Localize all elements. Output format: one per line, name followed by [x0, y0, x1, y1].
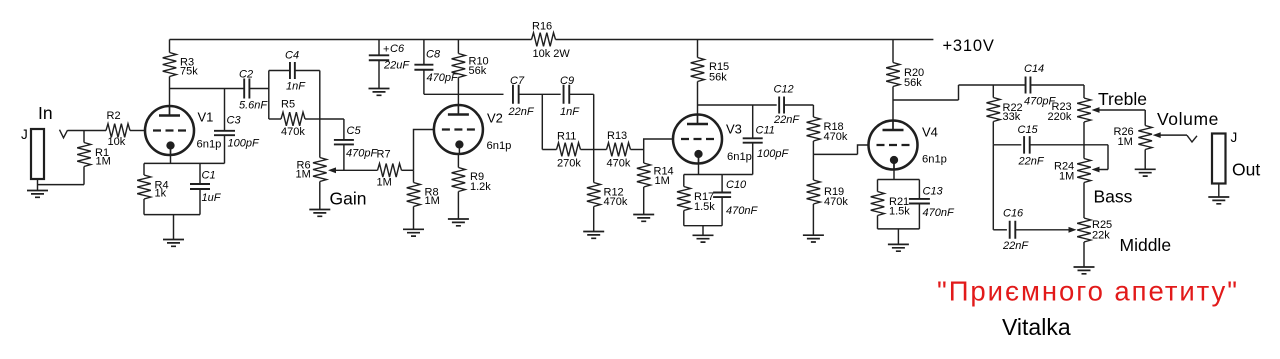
ground V1 cathode network: [163, 240, 184, 247]
wire C1 leads: [199, 163, 201, 214]
svg-text:1nF: 1nF: [560, 106, 580, 118]
wire V1 cathode box to ground: [173, 215, 175, 240]
middle pot wiper arrow: [1015, 227, 1076, 233]
svg-text:R16: R16: [532, 21, 552, 33]
svg-text:+310V: +310V: [943, 37, 995, 55]
wire V4 cathode box to ground: [897, 229, 899, 245]
wire V4 cathode box bottom: [878, 228, 920, 230]
svg-text:C3: C3: [227, 115, 242, 127]
wire C13 leads: [918, 180, 920, 229]
svg-text:22uF: 22uF: [383, 60, 410, 72]
svg-text:Bass: Bass: [1094, 187, 1133, 207]
wire network output down to gain pot: [319, 119, 321, 158]
capacitor C15 22nF (bass cap): [1018, 124, 1045, 168]
svg-text:C12: C12: [774, 84, 794, 96]
ground R9: [448, 219, 469, 226]
wire C15 to bass pot top and wiper jog: [1030, 145, 1108, 170]
svg-text:22nF: 22nF: [1018, 156, 1045, 168]
svg-text:33k: 33k: [1003, 111, 1021, 123]
resistor R5 470k (series): [269, 99, 320, 139]
ground input jack: [27, 191, 48, 198]
svg-text:22nF: 22nF: [1002, 240, 1029, 252]
wire C6 leads: [378, 40, 380, 89]
wire V4 cathode to box: [893, 158, 895, 180]
svg-text:R11: R11: [557, 131, 576, 143]
svg-text:470nF: 470nF: [923, 207, 955, 219]
svg-text:R7: R7: [377, 149, 391, 161]
svg-text:1M: 1M: [296, 169, 311, 181]
svg-text:56k: 56k: [469, 65, 487, 77]
svg-text:C7: C7: [510, 75, 525, 87]
svg-text:C6: C6: [390, 43, 405, 55]
wire V1 plate lead: [169, 89, 171, 116]
resistor R17 1.5k (V3 cathode): [677, 175, 715, 226]
wire V3 cathode box to ground: [702, 226, 704, 236]
wire C12 to R18 drop: [784, 105, 813, 117]
wire V4 plate lead: [892, 100, 894, 130]
capacitor C4 1nF (bypass over R5): [285, 50, 306, 93]
wire V1 cathode to RC network: [170, 146, 172, 164]
resistor R22 33k (slope): [987, 85, 1023, 145]
svg-text:C15: C15: [1018, 124, 1039, 136]
resistor R1 1M (input grid leak): [77, 131, 111, 168]
ground V4 cathode network: [888, 244, 909, 251]
resistor R7 1M (to V2 grid): [377, 149, 414, 189]
wire network right edge: [319, 71, 321, 120]
capacitor C12 22nF (coupling): [773, 84, 800, 127]
potentiometer R24 1M (Bass): [1054, 159, 1091, 219]
svg-text:56k: 56k: [709, 72, 727, 84]
resistor R9 1.2k (V2 cathode): [452, 154, 492, 219]
capacitor C10 470nF (V3 cathode bypass): [713, 179, 758, 217]
svg-text:22nF: 22nF: [508, 106, 535, 118]
capacitor C1 1uF (V1 cathode bypass): [190, 170, 222, 205]
svg-text:22nF: 22nF: [773, 114, 800, 126]
svg-text:In: In: [38, 103, 53, 123]
potentiometer R23 220k (Treble): [1048, 98, 1091, 159]
triode V4 6n1p: [869, 121, 947, 170]
wire C8 leads: [423, 40, 425, 95]
svg-text:1.2k: 1.2k: [470, 181, 491, 193]
ground middle pot: [1074, 267, 1095, 274]
resistor R3 75k (V1 plate load): [163, 40, 199, 89]
svg-text:1nF: 1nF: [286, 81, 306, 93]
wire +310V supply rail (right section): [556, 39, 934, 41]
potentiometer R25 22k (Middle): [1077, 218, 1112, 267]
ground R8: [403, 229, 424, 236]
svg-text:C4: C4: [285, 50, 299, 62]
input jack J (In): [21, 103, 53, 179]
svg-text:C9: C9: [560, 75, 574, 87]
wire network left edge: [268, 71, 270, 120]
wire V3 cathode box bottom: [684, 225, 722, 227]
svg-text:1M: 1M: [96, 156, 111, 168]
wire V2 plate lead: [457, 94, 459, 114]
svg-text:1.5k: 1.5k: [694, 201, 715, 213]
capacitor C13 470nF (V4 cathode bypass): [909, 186, 955, 220]
triode V3 6n1p: [673, 115, 752, 164]
svg-text:Middle: Middle: [1120, 235, 1172, 255]
svg-text:J: J: [1231, 130, 1238, 145]
svg-text:C13: C13: [923, 186, 944, 198]
capacitor C11 100pF (V3 plate-cathode): [743, 125, 790, 161]
svg-text:C11: C11: [756, 125, 775, 137]
svg-text:470k: 470k: [604, 196, 628, 208]
ground volume pot: [1135, 169, 1156, 176]
capacitor C7 22nF (coupling): [508, 75, 535, 118]
ground C6: [369, 89, 390, 96]
svg-text:C5: C5: [347, 125, 362, 137]
svg-text:56k: 56k: [904, 77, 922, 89]
ground R19: [803, 235, 824, 242]
svg-text:C1: C1: [202, 170, 216, 182]
capacitor C16 22nF (middle cap): [1002, 208, 1029, 253]
svg-text:R5: R5: [281, 99, 295, 111]
svg-text:R2: R2: [107, 110, 121, 122]
wire C5 leads: [343, 119, 345, 170]
svg-text:470k: 470k: [824, 131, 848, 143]
svg-text:V4: V4: [922, 125, 938, 140]
capacitor C6 22uF (supply decoupling): [369, 43, 411, 72]
wire C3 leads: [224, 89, 226, 164]
capacitor C3 100pF (V1 plate-cathode): [214, 115, 260, 150]
wire C14 to treble pot: [1030, 85, 1084, 98]
output connection arrow V: [1187, 135, 1197, 142]
svg-text:470pF: 470pF: [427, 72, 459, 84]
bass pot wiper arrow: [1092, 167, 1102, 173]
potentiometer R26 1M (Volume): [1114, 110, 1153, 169]
wire R7 to V2 grid riser: [414, 130, 434, 171]
capacitor C9 1nF (bypass over R11): [560, 75, 580, 118]
ground output jack: [1208, 197, 1229, 204]
svg-text:470nF: 470nF: [726, 205, 758, 217]
svg-text:22k: 22k: [1092, 230, 1110, 242]
input connection arrow V: [60, 130, 68, 138]
svg-text:1M: 1M: [377, 177, 392, 189]
resistor R14 1M (V3 grid leak): [637, 150, 674, 215]
svg-text:1uF: 1uF: [202, 192, 222, 204]
wire network output to C5 branch: [320, 118, 344, 120]
resistor R8 1M (V2 grid leak): [407, 170, 440, 229]
resistor R15 56k (V3 plate load): [691, 40, 729, 106]
svg-text:470k: 470k: [824, 196, 848, 208]
svg-text:"Приємного апетиту": "Приємного апетиту": [937, 275, 1239, 306]
svg-text:6n1p: 6n1p: [727, 151, 752, 163]
wire V3 cathode box top: [684, 174, 722, 176]
wire divider tap to V4 grid: [813, 145, 868, 154]
wire V3 plate node: [698, 104, 777, 106]
svg-text:220k: 220k: [1048, 111, 1072, 123]
ground R12: [583, 232, 604, 239]
resistor R2 10k (grid stopper): [106, 110, 145, 148]
svg-text:C14: C14: [1024, 63, 1044, 75]
wire input jack sleeve to ground: [37, 179, 39, 191]
resistor R19 470k (divider bottom): [807, 154, 849, 235]
svg-text:J: J: [21, 127, 28, 142]
ground V3 cathode network: [693, 235, 714, 242]
svg-text:V3: V3: [726, 122, 742, 137]
svg-text:C2: C2: [239, 69, 253, 81]
svg-text:1.5k: 1.5k: [889, 206, 910, 218]
svg-text:5.6nF: 5.6nF: [239, 100, 268, 112]
svg-text:Treble: Treble: [1098, 89, 1147, 109]
resistor R21 1.5k (V4 cathode): [871, 180, 911, 229]
svg-text:10k: 10k: [108, 136, 126, 148]
svg-text:270k: 270k: [557, 158, 581, 170]
resistor R16 10k 2W (supply dropper): [532, 21, 571, 61]
resistor R12 470k (divider to ground): [587, 150, 628, 232]
wire V3 plate lead: [697, 105, 699, 124]
wire R13 to V3 grid riser: [644, 139, 673, 150]
capacitor C14 470pF (treble cap): [1024, 63, 1056, 108]
svg-text:Vitalka: Vitalka: [1002, 314, 1071, 340]
triode V1 6n1p: [145, 106, 221, 155]
volume pot wiper arrow: [1153, 132, 1187, 138]
triode V2 6n1p: [434, 105, 511, 154]
wire C7 drop to R11: [542, 94, 556, 149]
svg-text:1M: 1M: [655, 175, 670, 187]
svg-text:470k: 470k: [281, 126, 305, 138]
svg-text:1M: 1M: [1059, 171, 1074, 183]
wire input arrow to R2/grid node: [68, 130, 107, 132]
gain pot wiper arrow: [328, 167, 378, 173]
resistor R10 56k (V2 plate load): [452, 40, 489, 95]
svg-text:470pF: 470pF: [346, 148, 378, 160]
svg-text:100pF: 100pF: [228, 138, 260, 150]
svg-text:C16: C16: [1003, 208, 1024, 220]
wire V3 cathode to box: [698, 152, 700, 175]
svg-text:6n1p: 6n1p: [487, 140, 512, 152]
wire C16 line: [993, 229, 1007, 231]
wire C9 right to junction drop: [569, 94, 593, 149]
treble pot wiper arrow: [1092, 107, 1146, 113]
svg-text:1k: 1k: [155, 188, 167, 200]
wire C2 to network: [249, 88, 268, 90]
wire C11 leads and box extension: [722, 105, 753, 175]
wire V1 cathode box bottom: [144, 214, 200, 216]
svg-text:100pF: 100pF: [757, 148, 789, 160]
svg-text:C8: C8: [426, 49, 441, 61]
capacitor C8 470pF (rail to V2 plate): [414, 49, 459, 85]
svg-text:+: +: [383, 44, 389, 56]
resistor R18 470k (divider top): [807, 117, 848, 154]
wire R22 node to C15: [993, 144, 1021, 146]
wire V4 cathode box top: [878, 179, 920, 181]
svg-text:R13: R13: [607, 130, 627, 142]
svg-text:6n1p: 6n1p: [922, 154, 947, 166]
capacitor C2 5.6nF (coupling): [239, 69, 268, 112]
svg-text:1M: 1M: [425, 195, 440, 207]
svg-text:Gain: Gain: [330, 189, 367, 209]
svg-text:V2: V2: [487, 111, 503, 126]
resistor R13 470k: [594, 130, 644, 170]
wire network top branch: [269, 70, 320, 72]
wire V1 plate node to C2: [170, 88, 245, 90]
svg-text:Out: Out: [1232, 159, 1260, 179]
svg-text:1M: 1M: [1118, 136, 1133, 148]
output jack J (Out): [1212, 130, 1260, 184]
wire V4 plate node to tone stack: [893, 85, 1026, 100]
wire R22 bottom down to C16 line: [992, 145, 994, 230]
wire V1 cathode box top: [144, 162, 225, 164]
potentiometer R6 1M (Gain): [296, 158, 327, 210]
svg-text:470k: 470k: [607, 158, 631, 170]
svg-text:75k: 75k: [180, 66, 198, 78]
wire input ground bus to R1 bottom: [38, 167, 85, 185]
ground gain pot: [309, 210, 330, 217]
capacitor C5 470pF (gain bright cap): [334, 125, 379, 160]
wire output jack sleeve to ground: [1218, 184, 1220, 198]
wire V2 plate node: [424, 93, 504, 95]
ground R14: [633, 215, 654, 222]
svg-text:6n1p: 6n1p: [197, 139, 222, 151]
resistor R4 1k (V1 cathode): [137, 163, 168, 214]
resistor R20 56k (V4 plate load): [886, 40, 924, 101]
wire C7 to C9: [519, 93, 561, 95]
svg-text:10k 2W: 10k 2W: [533, 48, 571, 60]
resistor R11 270k: [557, 131, 594, 170]
wire +310V supply rail (left section): [170, 39, 532, 41]
svg-text:V1: V1: [198, 110, 214, 125]
svg-text:Volume: Volume: [1157, 109, 1219, 129]
wire C10 leads: [721, 175, 723, 226]
svg-text:C10: C10: [726, 179, 747, 191]
